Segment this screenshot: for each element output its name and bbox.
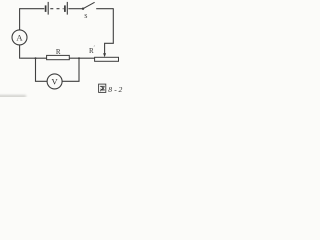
- wire switch to top-right corner: [96, 8, 113, 10]
- wire left rail upper: [19, 8, 21, 30]
- label 图8-2: [99, 84, 106, 92]
- battery cell E1: [46, 2, 49, 15]
- voltmeter V: [47, 74, 62, 89]
- slider arrow: [103, 53, 106, 57]
- svg-text:2: 2: [119, 85, 123, 94]
- switch S: [82, 2, 95, 10]
- wire right rail with jog: [105, 8, 114, 54]
- wire middle left (left corner to resistor): [20, 57, 46, 59]
- svg-text:R: R: [56, 48, 61, 56]
- wire middle right (resistor to rheostat): [69, 57, 94, 59]
- resistor R: [47, 55, 70, 59]
- wire voltmeter right branch: [62, 58, 79, 81]
- wire voltmeter left branch: [36, 58, 48, 81]
- node right junction: [78, 57, 80, 59]
- ammeter A: [12, 30, 27, 45]
- wire left rail lower: [19, 45, 21, 59]
- battery cell E2: [65, 2, 67, 15]
- svg-text:V: V: [52, 77, 59, 87]
- wire top-left horizontal: [20, 8, 45, 10]
- scan smudge bottom-left: [0, 95, 26, 97]
- battery dashed link: [50, 8, 63, 10]
- node left junction: [35, 57, 37, 59]
- rheostat R': [95, 57, 119, 61]
- svg-text:8: 8: [108, 85, 112, 94]
- wire battery to switch: [68, 8, 82, 10]
- svg-text:A: A: [16, 33, 23, 43]
- svg-text:S: S: [84, 14, 87, 20]
- svg-text:′: ′: [94, 46, 95, 51]
- svg-text:-: -: [114, 85, 117, 94]
